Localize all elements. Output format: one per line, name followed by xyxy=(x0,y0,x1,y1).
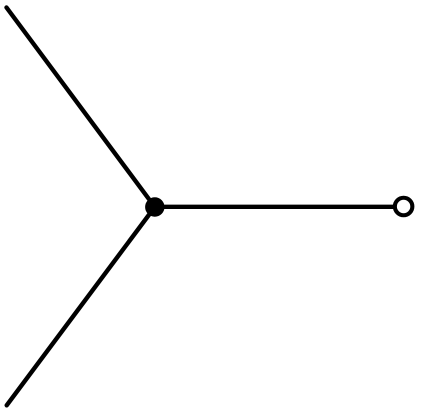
wire lower-left branch xyxy=(7,207,155,405)
wire horizontal to terminal xyxy=(155,205,397,209)
node junction (filled dot) xyxy=(145,197,164,216)
terminal (open circle) xyxy=(395,198,413,216)
wire upper-left branch xyxy=(7,8,155,208)
